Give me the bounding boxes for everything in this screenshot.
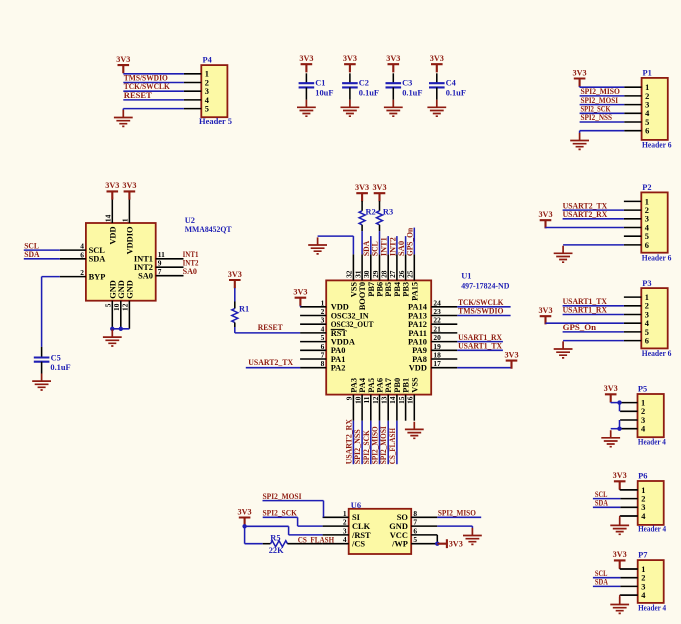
P4 pin 5 bbox=[184, 105, 209, 114]
U1 pin 1 VDD bbox=[300, 298, 349, 311]
U6 pin 1 SI bbox=[323, 509, 360, 522]
svg-text:Header 6: Header 6 bbox=[642, 253, 672, 262]
svg-text:SA0: SA0 bbox=[397, 241, 406, 256]
U2 pin 12 GND bbox=[121, 280, 135, 329]
P6 pin 4 bbox=[620, 512, 646, 521]
U1 pin 8 PA2 bbox=[300, 359, 345, 372]
connector P7 box bbox=[638, 560, 664, 603]
svg-text:24: 24 bbox=[433, 298, 441, 307]
wire RESET to P4 pin4 bbox=[123, 99, 184, 101]
3V3 power symbol at C1 bbox=[301, 64, 313, 72]
U2 pin 9 INT2 bbox=[134, 259, 184, 273]
svg-text:3V3: 3V3 bbox=[386, 54, 400, 63]
wire TCK/SWCLK to P4 pin3 bbox=[123, 90, 184, 92]
svg-text:27: 27 bbox=[388, 270, 397, 278]
wire 3V3 to C1 bbox=[305, 73, 307, 83]
wire U6 SO to SPI2_MISO bbox=[437, 516, 481, 518]
U2 pin 6 SDA bbox=[60, 250, 106, 263]
U1 pin 12 PA6 bbox=[371, 378, 385, 421]
svg-text:PA4: PA4 bbox=[358, 377, 367, 393]
U1 pin 20 PA10 bbox=[408, 333, 457, 346]
P5 pin 4 bbox=[620, 425, 646, 434]
svg-text:SDA: SDA bbox=[24, 250, 39, 259]
svg-text:PB1: PB1 bbox=[402, 378, 411, 393]
svg-text:22: 22 bbox=[433, 316, 441, 325]
svg-text:PA14: PA14 bbox=[408, 303, 428, 312]
P4 pin 4 bbox=[184, 96, 210, 105]
svg-text:20: 20 bbox=[433, 333, 441, 342]
wire USART2_RX to P2 pin3 bbox=[563, 218, 624, 220]
P2 pin 1 bbox=[624, 197, 649, 206]
svg-text:VDD: VDD bbox=[409, 364, 427, 373]
svg-text:Header 6: Header 6 bbox=[642, 140, 672, 149]
svg-text:SPI2_SCK: SPI2_SCK bbox=[362, 430, 371, 464]
svg-text:VDD: VDD bbox=[108, 227, 117, 245]
capacitor C3 bbox=[386, 79, 423, 98]
junction at P5 pin4 bbox=[617, 427, 621, 431]
wire U6 GND to ground bbox=[437, 526, 472, 528]
U1 pin 5 VDDA bbox=[300, 333, 355, 346]
3V3 power symbol at U2 VDDIO bbox=[124, 191, 136, 199]
svg-text:/CS: /CS bbox=[351, 540, 365, 549]
U1 pin 21 PA11 bbox=[408, 324, 457, 337]
svg-text:SCL: SCL bbox=[24, 241, 39, 250]
P3 pin 4 bbox=[624, 319, 650, 328]
U6 pin 8 SO bbox=[397, 509, 438, 522]
svg-text:3V3: 3V3 bbox=[504, 350, 518, 359]
svg-text:3V3: 3V3 bbox=[343, 54, 357, 63]
svg-text:3V3: 3V3 bbox=[372, 183, 386, 192]
wire U6 /WP junction to 3V3 bar bbox=[437, 543, 446, 545]
svg-text:OSC32_IN: OSC32_IN bbox=[331, 311, 369, 320]
wire R3 to U1 PB6 bbox=[379, 225, 381, 255]
svg-text:PB5: PB5 bbox=[384, 282, 393, 297]
P4 pin 2 bbox=[184, 78, 209, 87]
ground at P2 bbox=[554, 246, 573, 263]
P1 pin 6 bbox=[624, 127, 649, 136]
P4 pin 3 bbox=[184, 87, 209, 96]
svg-text:SCL: SCL bbox=[371, 241, 380, 256]
U2 pin 4 SCL bbox=[60, 242, 106, 255]
svg-text:1: 1 bbox=[641, 399, 645, 408]
U1 pin 11 PA5 bbox=[362, 378, 376, 421]
3V3 power symbol at C3 bbox=[388, 64, 400, 72]
U1 pin 26 PB3 bbox=[397, 254, 411, 296]
svg-text:25: 25 bbox=[406, 270, 415, 278]
svg-text:14: 14 bbox=[388, 396, 397, 404]
wire TCK/SWCLK to U1 pin24 bbox=[457, 306, 510, 308]
P2 pin 2 bbox=[624, 206, 649, 215]
resistor R5 bbox=[269, 533, 288, 555]
svg-text:2: 2 bbox=[645, 302, 649, 311]
svg-text:USART1_RX: USART1_RX bbox=[563, 306, 607, 315]
P5 pin 2 bbox=[620, 407, 645, 416]
svg-text:USART2_TX: USART2_TX bbox=[563, 201, 608, 210]
3V3 power symbol at C2 bbox=[344, 64, 356, 72]
wire U1 VSS pin32 to GND bbox=[318, 236, 354, 254]
svg-text:10: 10 bbox=[353, 396, 362, 404]
svg-text:SPI2_MOSI: SPI2_MOSI bbox=[581, 96, 619, 105]
3V3 power symbol at U6 bbox=[239, 518, 251, 526]
svg-text:GPS_On: GPS_On bbox=[406, 228, 415, 256]
wire 3V3 to R3 bbox=[379, 201, 381, 211]
svg-text:31: 31 bbox=[353, 270, 362, 278]
wire P5 pin1 to pin2 bbox=[619, 403, 621, 412]
wire SPI2_MOSI to U1 pin13 bbox=[387, 421, 389, 465]
ground at P4 bbox=[114, 110, 133, 127]
svg-text:SPI2_NSS: SPI2_NSS bbox=[353, 429, 362, 464]
wire into C5 bbox=[41, 347, 43, 358]
svg-text:4: 4 bbox=[321, 324, 325, 333]
capacitor C4 bbox=[429, 79, 466, 98]
ground at P7 bbox=[610, 597, 629, 614]
svg-text:16: 16 bbox=[406, 396, 415, 404]
U1 pin 27 PB4 bbox=[388, 254, 402, 296]
U1 pin 23 PA13 bbox=[408, 307, 457, 320]
svg-text:1: 1 bbox=[645, 83, 649, 92]
svg-text:2: 2 bbox=[321, 307, 325, 316]
svg-text:Header 4: Header 4 bbox=[638, 438, 667, 447]
U6 pin 4 /CS bbox=[323, 535, 366, 548]
svg-text:CLK: CLK bbox=[352, 522, 371, 531]
svg-text:8: 8 bbox=[321, 359, 325, 368]
svg-text:PA13: PA13 bbox=[408, 311, 427, 320]
ground at P1 bbox=[570, 133, 589, 150]
3V3 power symbol at U1 VDD pin17 bbox=[506, 361, 518, 369]
U2 pin 14 VDD bbox=[104, 197, 118, 245]
svg-text:SPI2_SCK: SPI2_SCK bbox=[263, 509, 298, 518]
svg-text:3V3: 3V3 bbox=[116, 55, 130, 64]
3V3 power symbol right-facing at U6 bbox=[439, 539, 447, 548]
wire SPI2_MISO to P1 pin2 bbox=[580, 95, 625, 97]
svg-text:5: 5 bbox=[645, 328, 649, 337]
svg-text:2: 2 bbox=[343, 518, 347, 527]
wire USART1_TX to U1 pin19 bbox=[457, 349, 503, 351]
svg-text:SPI2_MISO: SPI2_MISO bbox=[438, 508, 476, 517]
ground at P6 bbox=[610, 518, 629, 535]
wire INT2 to U1 pin27 bbox=[396, 236, 398, 254]
svg-text:SDA: SDA bbox=[595, 578, 608, 587]
3V3 power symbol at P7 bbox=[614, 560, 626, 568]
mcu U1 box bbox=[326, 280, 431, 394]
resistor R1 bbox=[232, 305, 249, 323]
wire USART2_TX to P2 pin2 bbox=[563, 209, 624, 211]
svg-text:3V3: 3V3 bbox=[299, 54, 313, 63]
svg-text:PA6: PA6 bbox=[376, 378, 385, 393]
U1 pin 24 PA14 bbox=[408, 298, 457, 311]
U1 pin 3 OSC32_OUT bbox=[300, 316, 374, 329]
ground at C4 bbox=[427, 100, 446, 117]
svg-text:INT1: INT1 bbox=[380, 237, 389, 256]
svg-text:C1: C1 bbox=[315, 79, 325, 88]
svg-text:2: 2 bbox=[645, 206, 649, 215]
wire P5 pin3 to pin4 bbox=[619, 420, 621, 429]
wire USART2_RX to U1 pin9 bbox=[352, 421, 354, 465]
U6 pin 2 CLK bbox=[323, 518, 371, 531]
ground at U6 bbox=[463, 528, 482, 545]
wire C3 to ground bbox=[392, 87, 394, 99]
svg-text:497-17824-ND: 497-17824-ND bbox=[461, 281, 509, 290]
wire SA0 to U1 pin26 bbox=[405, 236, 407, 254]
wire C2 to ground bbox=[349, 87, 351, 99]
svg-text:12: 12 bbox=[121, 303, 130, 311]
svg-text:PA10: PA10 bbox=[408, 338, 427, 347]
U1 pin 17 VDD bbox=[409, 359, 458, 372]
svg-text:PB6: PB6 bbox=[376, 282, 385, 297]
svg-text:3: 3 bbox=[641, 416, 645, 425]
U1 pin 2 OSC32_IN bbox=[300, 307, 369, 320]
U6 pin 7 GND bbox=[389, 518, 437, 531]
svg-text:SPI2_MOSI: SPI2_MOSI bbox=[263, 492, 302, 501]
svg-text:SA0: SA0 bbox=[138, 272, 153, 281]
wire SPI2_NSS to P1 pin5 bbox=[580, 121, 625, 123]
svg-text:R1: R1 bbox=[239, 305, 249, 314]
svg-text:Header 4: Header 4 bbox=[638, 525, 667, 534]
svg-text:30: 30 bbox=[362, 270, 371, 278]
svg-text:4: 4 bbox=[80, 242, 84, 251]
svg-text:11: 11 bbox=[362, 396, 371, 403]
svg-text:SDA: SDA bbox=[595, 499, 608, 508]
wire CS_FLASH to U1 pin14 bbox=[396, 421, 398, 465]
svg-text:3: 3 bbox=[343, 526, 347, 535]
svg-text:0.1uF: 0.1uF bbox=[402, 88, 422, 97]
U1 pin 7 PA1 bbox=[300, 351, 345, 364]
svg-text:RESET: RESET bbox=[124, 91, 152, 100]
U2 pin 7 SA0 bbox=[138, 267, 183, 281]
svg-text:3V3: 3V3 bbox=[122, 181, 136, 190]
svg-text:INT2: INT2 bbox=[388, 237, 397, 256]
flash U6 box bbox=[349, 509, 412, 554]
svg-text:SCL: SCL bbox=[89, 246, 106, 255]
3V3 power symbol at P3 bbox=[540, 316, 552, 324]
junction at U6 /WP bbox=[435, 542, 439, 546]
U1 pin 28 PB5 bbox=[380, 254, 394, 296]
svg-text:3: 3 bbox=[321, 316, 325, 325]
svg-text:BYP: BYP bbox=[89, 273, 106, 282]
wire 3V3 to U1 pin1 bbox=[299, 306, 301, 307]
svg-text:3: 3 bbox=[641, 582, 645, 591]
svg-text:TCK/SWCLK: TCK/SWCLK bbox=[124, 82, 170, 91]
3V3 power symbol at C4 bbox=[431, 64, 443, 72]
svg-text:PA2: PA2 bbox=[331, 364, 346, 373]
U1 pin 31 BOOT0 bbox=[353, 254, 367, 310]
U1 pin 10 PA4 bbox=[353, 377, 367, 421]
svg-text:TMS/SWDIO: TMS/SWDIO bbox=[124, 73, 168, 82]
svg-text:26: 26 bbox=[397, 270, 406, 278]
svg-text:VSS: VSS bbox=[410, 377, 419, 393]
svg-text:28: 28 bbox=[380, 270, 389, 278]
svg-text:6: 6 bbox=[645, 241, 649, 250]
svg-text:C3: C3 bbox=[402, 79, 412, 88]
U6 pin 5 /WP bbox=[391, 535, 437, 548]
P6 pin 3 bbox=[620, 503, 645, 512]
wire 3V3 to R2 bbox=[361, 201, 363, 211]
U2 pin 10 GND bbox=[112, 280, 126, 329]
U1 pin 25 PA15 bbox=[406, 254, 420, 301]
U1 pin 29 PB6 bbox=[371, 254, 385, 296]
U1 pin 13 PA7 bbox=[380, 378, 394, 421]
svg-text:32: 32 bbox=[345, 270, 354, 278]
svg-text:R2: R2 bbox=[366, 207, 376, 216]
wire 3V3 to P6 pin1 bbox=[620, 489, 638, 490]
wire SPI2_SCK to U6 CLK bbox=[263, 517, 323, 526]
svg-text:29: 29 bbox=[371, 270, 380, 278]
svg-text:2: 2 bbox=[641, 495, 645, 504]
svg-text:C5: C5 bbox=[51, 353, 61, 362]
svg-text:Header 4: Header 4 bbox=[638, 604, 667, 613]
svg-text:P1: P1 bbox=[643, 69, 652, 78]
capacitor C1 bbox=[299, 79, 334, 98]
svg-text:21: 21 bbox=[433, 324, 441, 333]
svg-text:5: 5 bbox=[321, 333, 325, 342]
wire C4 to ground bbox=[436, 87, 438, 99]
wire 3V3 to C2 bbox=[349, 73, 351, 83]
ground at C2 bbox=[341, 100, 360, 117]
svg-text:7: 7 bbox=[413, 518, 417, 527]
svg-text:P7: P7 bbox=[638, 551, 647, 560]
wire SDA to P7 pin3 bbox=[593, 585, 620, 587]
P7 pin 1 bbox=[620, 565, 645, 574]
U2 pin 5 GND bbox=[104, 280, 118, 329]
svg-text:5: 5 bbox=[645, 232, 649, 241]
svg-text:SA0: SA0 bbox=[183, 267, 197, 276]
U1 pin 9 PA3 bbox=[345, 378, 359, 421]
svg-text:SPI2_MISO: SPI2_MISO bbox=[581, 87, 621, 96]
svg-text:/WP: /WP bbox=[391, 540, 408, 549]
svg-text:PA11: PA11 bbox=[408, 329, 426, 338]
ground at U2 bbox=[103, 330, 122, 347]
U2 pin 11 INT1 bbox=[134, 250, 184, 264]
wire 3V3 to P3 pin4 bbox=[546, 322, 624, 324]
svg-text:3V3: 3V3 bbox=[355, 183, 369, 192]
svg-text:3V3: 3V3 bbox=[613, 550, 627, 559]
wire SDA to U1 pin30 bbox=[370, 236, 372, 254]
svg-text:USART1_TX: USART1_TX bbox=[563, 297, 607, 306]
wire SDA to U2 bbox=[24, 258, 60, 260]
3V3 power symbol at P6 bbox=[614, 481, 626, 489]
U6 pin 3 /RST bbox=[323, 526, 371, 539]
ground at P3 bbox=[554, 341, 573, 358]
svg-text:R5: R5 bbox=[270, 533, 280, 542]
U2 pin 1 VDDIO bbox=[121, 197, 135, 255]
junction at P5 pin1 bbox=[617, 400, 621, 404]
connector P2 box bbox=[641, 192, 667, 252]
U1 pin 15 PB1 bbox=[397, 378, 411, 421]
svg-text:MMA8452QT: MMA8452QT bbox=[185, 225, 232, 234]
resistor R1 3V3 symbol bbox=[229, 280, 241, 288]
wire SPI2_MOSI to U6 SI bbox=[263, 501, 324, 518]
svg-text:C4: C4 bbox=[446, 79, 457, 88]
svg-text:23: 23 bbox=[433, 307, 441, 316]
svg-text:SCL: SCL bbox=[595, 569, 608, 578]
svg-text:U2: U2 bbox=[185, 216, 195, 225]
3V3 power symbol at R3 bbox=[374, 193, 386, 201]
wire SPI2_NSS to U1 pin10 bbox=[361, 421, 363, 465]
svg-text:2: 2 bbox=[205, 78, 209, 87]
wire GPS_On to P3 pin5 bbox=[563, 331, 624, 333]
junction at U2 GND pin5 bbox=[110, 327, 114, 331]
U1 pin 14 PB0 bbox=[388, 378, 402, 421]
wire GND to P3 pin6 bbox=[563, 340, 624, 342]
svg-text:VDD: VDD bbox=[331, 303, 349, 312]
P1 pin 1 bbox=[624, 83, 649, 92]
svg-text:VDDIO: VDDIO bbox=[125, 226, 134, 254]
svg-text:14: 14 bbox=[104, 214, 113, 222]
svg-text:PB3: PB3 bbox=[402, 282, 411, 297]
svg-text:CS_FLASH: CS_FLASH bbox=[388, 428, 397, 465]
wire SDA to P6 pin3 bbox=[593, 506, 620, 508]
svg-text:PA5: PA5 bbox=[367, 378, 376, 393]
svg-text:5: 5 bbox=[205, 105, 209, 114]
svg-text:Header 5: Header 5 bbox=[199, 117, 232, 126]
wire 3V3 to P1 pin1 bbox=[580, 86, 625, 87]
wire TMS/SWDIO to U1 pin23 bbox=[457, 315, 510, 317]
U1 RST overbar bbox=[331, 328, 345, 330]
wire U2 GND pins junction bbox=[112, 328, 129, 330]
svg-text:8: 8 bbox=[413, 509, 417, 518]
svg-text:3V3: 3V3 bbox=[613, 471, 627, 480]
P3 pin 2 bbox=[624, 302, 649, 311]
svg-text:0.1uF: 0.1uF bbox=[446, 88, 466, 97]
svg-text:1: 1 bbox=[321, 298, 325, 307]
wire C5 to ground bbox=[41, 362, 43, 374]
P1 pin 5 bbox=[624, 118, 649, 127]
svg-text:6: 6 bbox=[413, 526, 417, 535]
P2 pin 3 bbox=[624, 215, 649, 224]
svg-text:SCL: SCL bbox=[595, 490, 608, 499]
svg-text:9: 9 bbox=[345, 396, 354, 400]
svg-text:3V3: 3V3 bbox=[449, 539, 463, 548]
U1 pin 19 PA9 bbox=[412, 342, 457, 355]
svg-text:3V3: 3V3 bbox=[238, 507, 252, 516]
svg-text:P5: P5 bbox=[638, 385, 647, 394]
P5 pin 3 bbox=[620, 416, 645, 425]
svg-text:SO: SO bbox=[397, 513, 409, 522]
P6 pin 2 bbox=[620, 495, 645, 504]
ground at C1 bbox=[297, 100, 316, 117]
svg-text:P3: P3 bbox=[642, 279, 651, 288]
svg-text:RST: RST bbox=[331, 329, 348, 338]
wire SPI2_SCK to P1 pin4 bbox=[580, 112, 625, 114]
P3 pin 1 bbox=[624, 293, 649, 302]
svg-text:2: 2 bbox=[641, 407, 645, 416]
svg-text:5: 5 bbox=[413, 535, 417, 544]
svg-text:10uF: 10uF bbox=[315, 88, 333, 97]
svg-text:/RST: /RST bbox=[351, 531, 371, 540]
svg-text:GND: GND bbox=[125, 280, 134, 299]
svg-text:1: 1 bbox=[645, 197, 649, 206]
svg-text:PB7: PB7 bbox=[367, 282, 376, 297]
P1 pin 2 bbox=[624, 92, 649, 101]
3V3 power symbol at U2 VDD bbox=[107, 191, 119, 199]
P7 pin 2 bbox=[620, 574, 645, 583]
svg-text:22K: 22K bbox=[269, 546, 284, 555]
svg-text:Header 6: Header 6 bbox=[642, 349, 672, 358]
U1 pin 22 PA12 bbox=[408, 316, 457, 329]
resistor R2 bbox=[359, 207, 376, 224]
svg-text:12: 12 bbox=[371, 396, 380, 404]
wire INT1 to U1 pin28 bbox=[387, 236, 389, 254]
wire P5 pin4 to GND bbox=[611, 428, 620, 430]
svg-text:USART2_RX: USART2_RX bbox=[563, 210, 608, 219]
wire GND to P7 pin4 bbox=[620, 595, 638, 597]
svg-text:17: 17 bbox=[433, 359, 441, 368]
svg-text:USART1_RX: USART1_RX bbox=[458, 333, 502, 342]
P7 pin 4 bbox=[620, 591, 646, 600]
U1 pin 18 PA8 bbox=[412, 351, 457, 364]
connector P1 box bbox=[642, 78, 668, 140]
U1 pin 4 RST bbox=[300, 324, 347, 337]
